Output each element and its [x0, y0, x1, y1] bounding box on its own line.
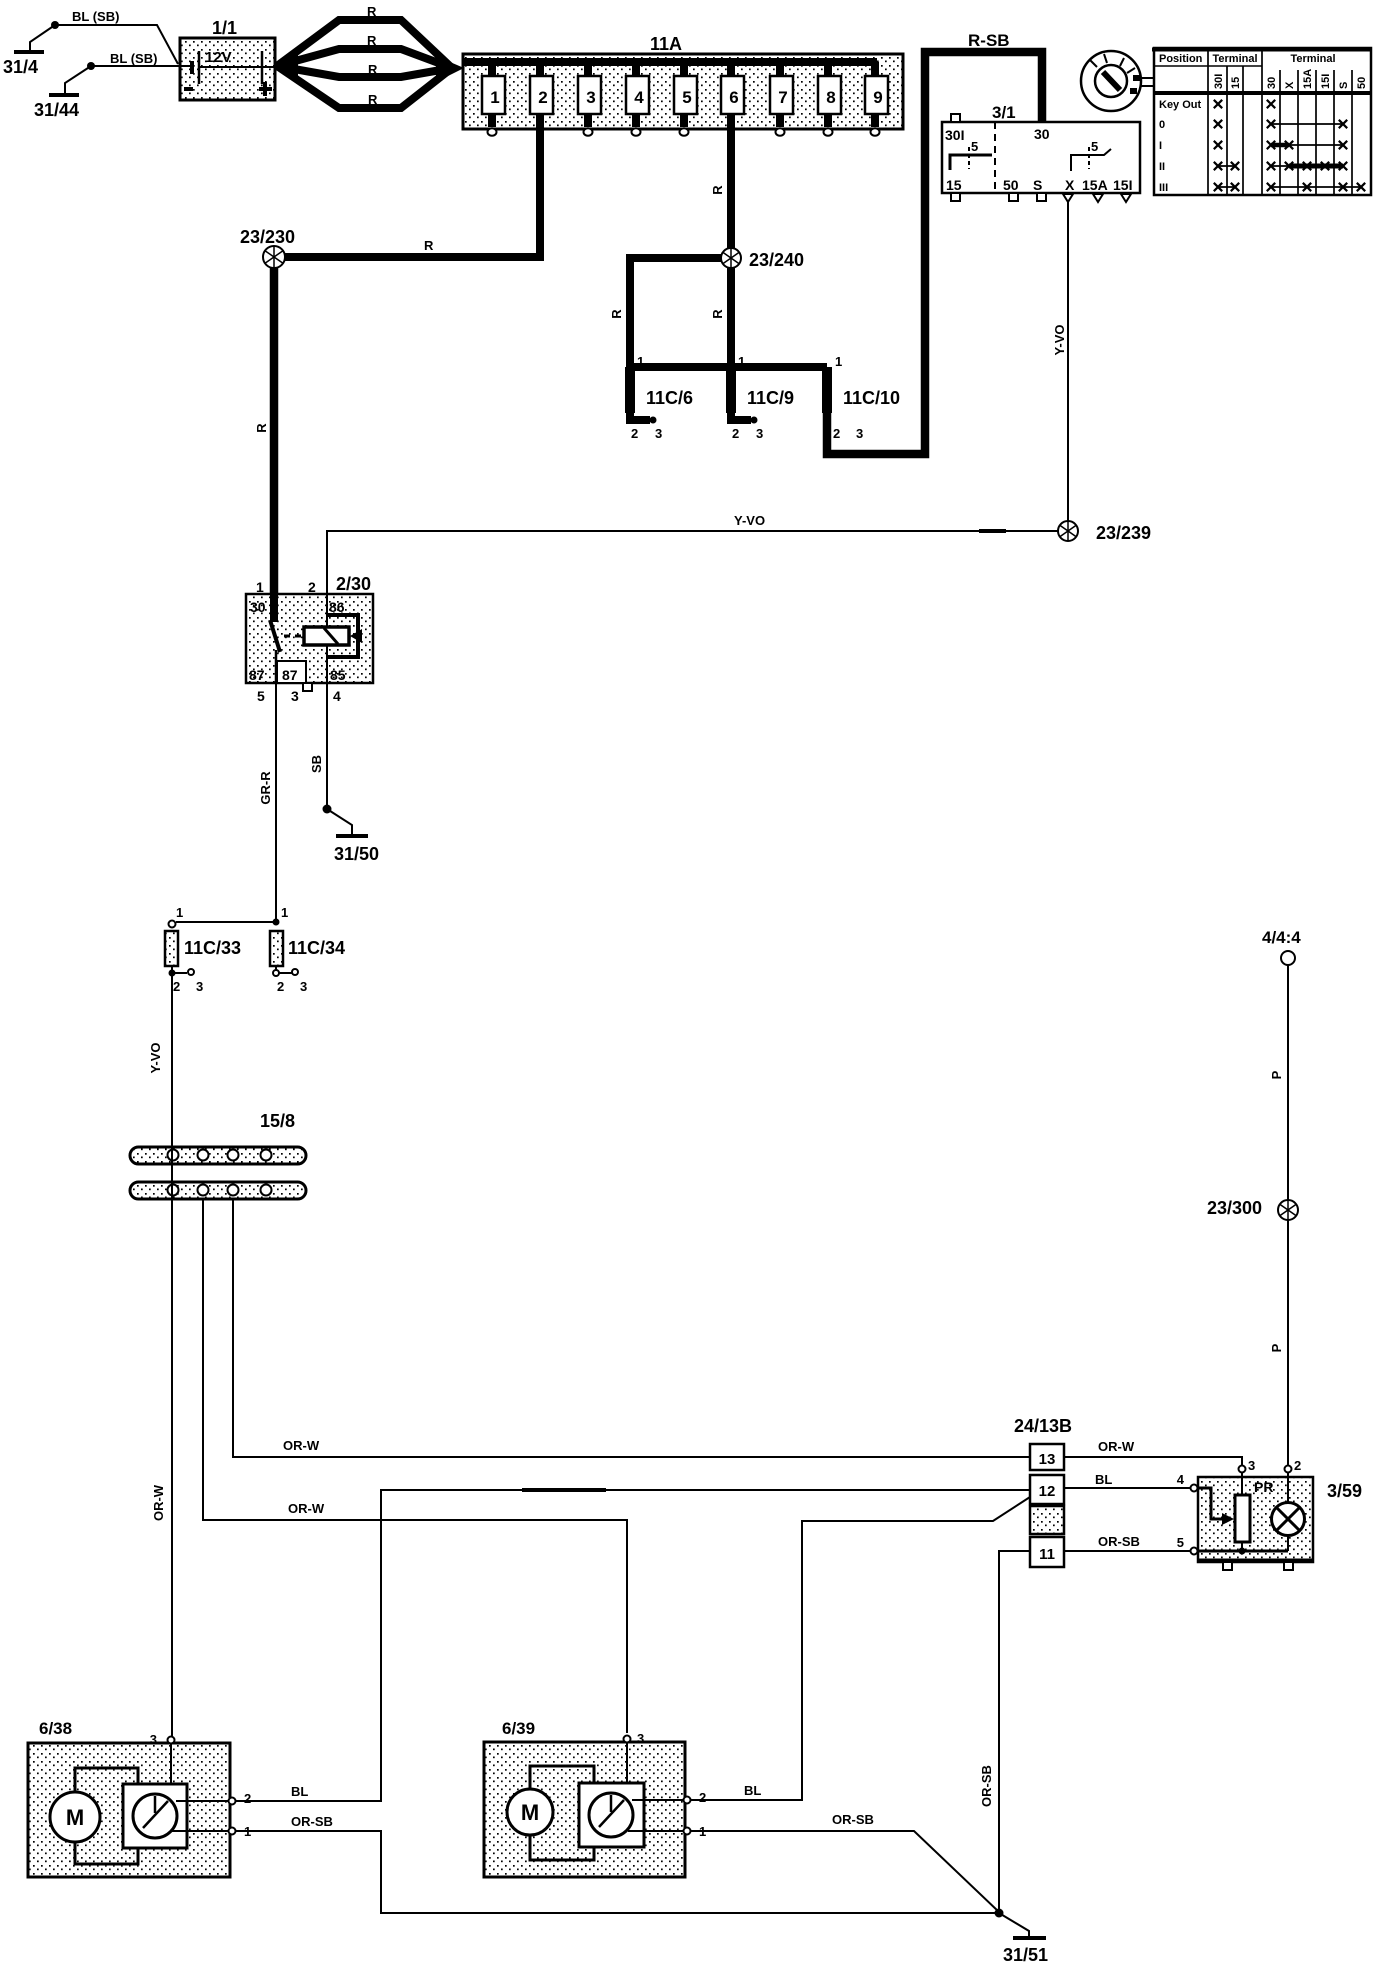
wire R fuse 2 to node 23/230 — [285, 125, 540, 257]
wire thick patch on BL — [522, 1488, 606, 1492]
svg-text:1/1: 1/1 — [212, 18, 237, 38]
svg-text:3: 3 — [196, 979, 203, 994]
svg-text:R: R — [710, 309, 725, 319]
wire BL motor 6/39 pin 2 to 24/13B pin 12 — [691, 1497, 1030, 1800]
svg-text:31/44: 31/44 — [34, 100, 79, 120]
connector 11C/6 — [630, 354, 693, 441]
svg-text:OR-W: OR-W — [283, 1438, 320, 1453]
wire R node 23/240 to 11C/6 — [609, 258, 722, 367]
svg-text:Y-VO: Y-VO — [734, 513, 765, 528]
svg-text:4: 4 — [1177, 1472, 1185, 1487]
wire R-SB 11C/10 to ignition switch 3/1 terminal 30 — [827, 31, 1042, 454]
svg-text:31/51: 31/51 — [1003, 1945, 1048, 1965]
connector 11C/34 — [270, 905, 345, 994]
svg-text:2: 2 — [277, 979, 284, 994]
svg-text:85: 85 — [330, 667, 346, 683]
svg-text:6: 6 — [729, 88, 738, 107]
svg-text:R: R — [368, 92, 378, 107]
svg-text:15A: 15A — [1082, 177, 1108, 193]
svg-text:3: 3 — [150, 1732, 157, 1747]
svg-text:Position: Position — [1159, 53, 1203, 65]
svg-text:2: 2 — [631, 426, 638, 441]
svg-text:15I: 15I — [1320, 74, 1332, 89]
wire P 3/59 pin 2 to terminal 4/4:4 — [1269, 965, 1288, 1465]
switch with lamp 3/59 — [1177, 1458, 1362, 1570]
ignition position table — [1152, 48, 1372, 195]
svg-text:30: 30 — [250, 599, 266, 615]
svg-text:1: 1 — [738, 354, 745, 369]
wire Y-VO node 23/239 to relay 2/30 pin 2 — [327, 513, 1059, 594]
svg-text:II: II — [1159, 161, 1165, 173]
svg-text:R-SB: R-SB — [968, 31, 1010, 50]
svg-text:7: 7 — [778, 88, 787, 107]
svg-text:3: 3 — [655, 426, 662, 441]
svg-text:2: 2 — [308, 579, 316, 595]
wire OR-SB 24/13B pin 11 to 3/59 pin 5 — [1064, 1534, 1190, 1551]
svg-text:1: 1 — [256, 579, 264, 595]
svg-text:23/240: 23/240 — [749, 250, 804, 270]
wire bundle R x4 battery to fuse box — [275, 4, 464, 108]
svg-text:0: 0 — [1159, 119, 1165, 131]
svg-text:5: 5 — [971, 139, 978, 154]
ground junction dot 31/51 — [995, 1909, 1004, 1918]
svg-text:X: X — [1284, 81, 1296, 89]
fuse 5 — [674, 62, 697, 136]
svg-text:S: S — [1338, 82, 1350, 89]
svg-text:87: 87 — [249, 667, 265, 683]
motor 6/38 — [28, 1719, 251, 1877]
svg-text:P: P — [1269, 1343, 1284, 1352]
wire R node 23/240 to 11C/9 — [710, 267, 731, 367]
wire OR-W 15/8 to motor 6/38 pin 3 — [151, 973, 172, 1737]
svg-text:R: R — [367, 33, 377, 48]
svg-text:III: III — [1159, 182, 1168, 194]
svg-text:4: 4 — [634, 88, 644, 107]
fuse 4 — [626, 62, 649, 136]
ignition key symbol — [1081, 51, 1154, 111]
svg-text:13: 13 — [1039, 1451, 1056, 1468]
svg-text:6/39: 6/39 — [502, 1719, 535, 1738]
svg-text:2: 2 — [833, 426, 840, 441]
svg-text:SB: SB — [309, 755, 324, 773]
svg-text:Key Out: Key Out — [1159, 99, 1202, 111]
svg-text:R: R — [367, 4, 377, 19]
svg-text:2: 2 — [538, 88, 547, 107]
wire R fuse 6 to node 23/240 — [710, 125, 731, 249]
wire OR-SB 24/13B pin 11 to ground junction 31/51 — [979, 1551, 1030, 1913]
svg-text:2: 2 — [699, 1790, 706, 1805]
svg-text:5: 5 — [257, 688, 265, 704]
svg-text:BL: BL — [1095, 1472, 1112, 1487]
svg-text:12V: 12V — [205, 49, 232, 66]
svg-text:3: 3 — [856, 426, 863, 441]
svg-text:15: 15 — [1230, 77, 1242, 89]
svg-text:23/300: 23/300 — [1207, 1198, 1262, 1218]
fuse 1 — [482, 62, 505, 136]
svg-text:S: S — [1033, 177, 1042, 193]
connector 11C/9 — [731, 354, 794, 441]
svg-text:5: 5 — [1177, 1535, 1184, 1550]
svg-text:3: 3 — [586, 88, 595, 107]
svg-text:OR-W: OR-W — [151, 1484, 166, 1521]
svg-text:3: 3 — [756, 426, 763, 441]
svg-text:3: 3 — [291, 688, 299, 704]
svg-text:30: 30 — [1266, 77, 1278, 89]
svg-text:30: 30 — [1034, 126, 1050, 142]
wire BL (SB) from 31/4 to battery — [55, 9, 178, 64]
wire BL 24/13B pin 12 to 3/59 pin 4 — [1064, 1472, 1190, 1488]
wire OR-SB motor 6/39 pin 1 to ground junction — [691, 1812, 999, 1912]
svg-text:R: R — [424, 238, 434, 253]
connector 15/8 row 1 — [130, 1111, 306, 1164]
ground 31/51 — [999, 1913, 1048, 1965]
node 23/230 — [240, 227, 295, 268]
svg-text:2/30: 2/30 — [336, 574, 371, 594]
svg-text:1: 1 — [490, 88, 499, 107]
svg-text:11C/33: 11C/33 — [184, 938, 241, 958]
svg-text:11C/10: 11C/10 — [843, 388, 900, 408]
svg-text:3: 3 — [637, 1731, 644, 1746]
node 23/300 — [1207, 1198, 1298, 1221]
svg-text:15A: 15A — [1302, 69, 1314, 89]
wire OR-W 15/8 to 24/13B pin 13 — [233, 1199, 1030, 1457]
svg-text:15/8: 15/8 — [260, 1111, 295, 1131]
wire OR-W 24/13B pin 13 to 3/59 pin 3 — [1064, 1439, 1242, 1465]
svg-text:3: 3 — [300, 979, 307, 994]
svg-text:23/239: 23/239 — [1096, 523, 1151, 543]
connector 24/13B — [1014, 1416, 1072, 1567]
svg-text:15I: 15I — [1113, 177, 1132, 193]
svg-text:1: 1 — [835, 354, 842, 369]
svg-text:I: I — [1159, 140, 1162, 152]
svg-text:M: M — [521, 1800, 539, 1825]
svg-text:3: 3 — [1248, 1458, 1255, 1473]
svg-text:8: 8 — [826, 88, 835, 107]
wire thick patch on Y-VO — [979, 529, 1006, 533]
svg-text:OR-SB: OR-SB — [1098, 1534, 1140, 1549]
ground 31/44 — [34, 62, 95, 120]
svg-text:Y-VO: Y-VO — [148, 1042, 163, 1073]
svg-text:1: 1 — [637, 354, 644, 369]
svg-text:9: 9 — [873, 88, 882, 107]
svg-text:12: 12 — [1039, 1483, 1056, 1500]
svg-text:R: R — [368, 62, 378, 77]
svg-text:5: 5 — [1091, 139, 1098, 154]
svg-text:2: 2 — [244, 1791, 251, 1806]
svg-text:BL: BL — [291, 1784, 308, 1799]
wire 11C/34 pin 1 to 11C/33 pin 1 — [169, 921, 277, 928]
wire BL (SB) from 31/44 to battery — [91, 51, 180, 66]
svg-text:4: 4 — [333, 688, 341, 704]
wire SB relay pin 4 to ground 31/50 — [309, 683, 327, 809]
svg-text:30I: 30I — [1213, 74, 1225, 89]
ignition switch 3/1 — [942, 103, 1140, 202]
fuse box 11A — [463, 34, 903, 129]
svg-text:BL (SB): BL (SB) — [110, 51, 157, 66]
terminal 4/4:4 — [1262, 928, 1301, 965]
fuse 6 — [721, 62, 744, 127]
svg-text:OR-SB: OR-SB — [979, 1765, 994, 1807]
svg-text:X: X — [1065, 177, 1075, 193]
wire OR-W 15/8 to motor 6/39 pin 3 — [203, 1199, 627, 1733]
svg-text:87: 87 — [282, 667, 298, 683]
svg-text:Terminal: Terminal — [1212, 53, 1257, 65]
svg-text:11C/9: 11C/9 — [747, 388, 794, 408]
ground 31/50 — [323, 805, 380, 865]
fuse 3 — [578, 62, 601, 136]
svg-text:P: P — [1269, 1070, 1284, 1079]
svg-text:Y-VO: Y-VO — [1052, 324, 1067, 355]
svg-text:GR-R: GR-R — [258, 771, 273, 805]
svg-text:R: R — [254, 423, 269, 433]
svg-text:BL: BL — [744, 1783, 761, 1798]
wire BL motor 6/38 pin 2 to 24/13B pin 12 — [236, 1490, 1030, 1801]
svg-text:R: R — [710, 185, 725, 195]
wire pin 1 bus 11C/6 11C/9 11C/10 — [630, 363, 827, 371]
svg-text:2: 2 — [173, 979, 180, 994]
svg-text:1: 1 — [176, 905, 183, 920]
wire GR-R relay pin 5 to 11C/34 pin 1 — [258, 683, 280, 926]
svg-text:6/38: 6/38 — [39, 1719, 72, 1738]
wire Y-VO 11C/33 pin 2 down to 15/8 — [148, 973, 172, 1147]
svg-text:R: R — [609, 309, 624, 319]
svg-text:3/59: 3/59 — [1327, 1481, 1362, 1501]
connector 11C/33 — [165, 905, 241, 994]
svg-text:23/230: 23/230 — [240, 227, 295, 247]
wire OR-SB motor 6/38 pin 1 to ground junction — [236, 1814, 999, 1913]
svg-text:1: 1 — [281, 905, 288, 920]
fuse 9 — [865, 62, 888, 136]
battery 1/1 — [180, 18, 275, 100]
fuse 2 — [530, 62, 553, 127]
svg-text:3/1: 3/1 — [992, 103, 1016, 122]
wire R node 23/230 down to relay 2/30 pin 1 — [254, 267, 274, 622]
wire Y-VO ignition X terminal to node 23/239 — [1052, 201, 1068, 522]
svg-text:OR-W: OR-W — [1098, 1439, 1135, 1454]
svg-text:5: 5 — [682, 88, 691, 107]
motor 6/39 — [484, 1719, 706, 1877]
svg-text:11C/6: 11C/6 — [646, 388, 693, 408]
relay 2/30 — [246, 574, 373, 704]
connector 11C/10 — [827, 354, 900, 441]
svg-text:31/4: 31/4 — [3, 57, 38, 77]
svg-text:2: 2 — [1294, 1458, 1301, 1473]
svg-text:11A: 11A — [650, 34, 682, 54]
fuse 8 — [818, 62, 841, 136]
svg-text:Terminal: Terminal — [1290, 53, 1335, 65]
svg-text:11C/34: 11C/34 — [288, 938, 345, 958]
svg-text:11: 11 — [1039, 1546, 1055, 1563]
svg-text:OR-SB: OR-SB — [291, 1814, 333, 1829]
ground 31/4 — [3, 21, 59, 77]
svg-text:24/13B: 24/13B — [1014, 1416, 1072, 1436]
svg-text:15: 15 — [946, 177, 962, 193]
node 23/239 — [1058, 521, 1151, 543]
svg-text:31/50: 31/50 — [334, 844, 379, 864]
svg-text:30I: 30I — [945, 127, 964, 143]
svg-text:OR-SB: OR-SB — [832, 1812, 874, 1827]
svg-text:4/4:4: 4/4:4 — [1262, 928, 1301, 947]
svg-text:OR-W: OR-W — [288, 1501, 325, 1516]
svg-text:PR: PR — [1254, 1479, 1273, 1495]
fuse 7 — [770, 62, 793, 136]
svg-text:2: 2 — [732, 426, 739, 441]
svg-text:50: 50 — [1003, 177, 1019, 193]
connector 15/8 row 2 — [130, 1182, 306, 1199]
node 23/240 — [721, 248, 804, 270]
svg-text:BL (SB): BL (SB) — [72, 9, 119, 24]
svg-text:86: 86 — [329, 599, 345, 615]
svg-text:M: M — [66, 1805, 84, 1830]
svg-text:50: 50 — [1356, 77, 1368, 89]
